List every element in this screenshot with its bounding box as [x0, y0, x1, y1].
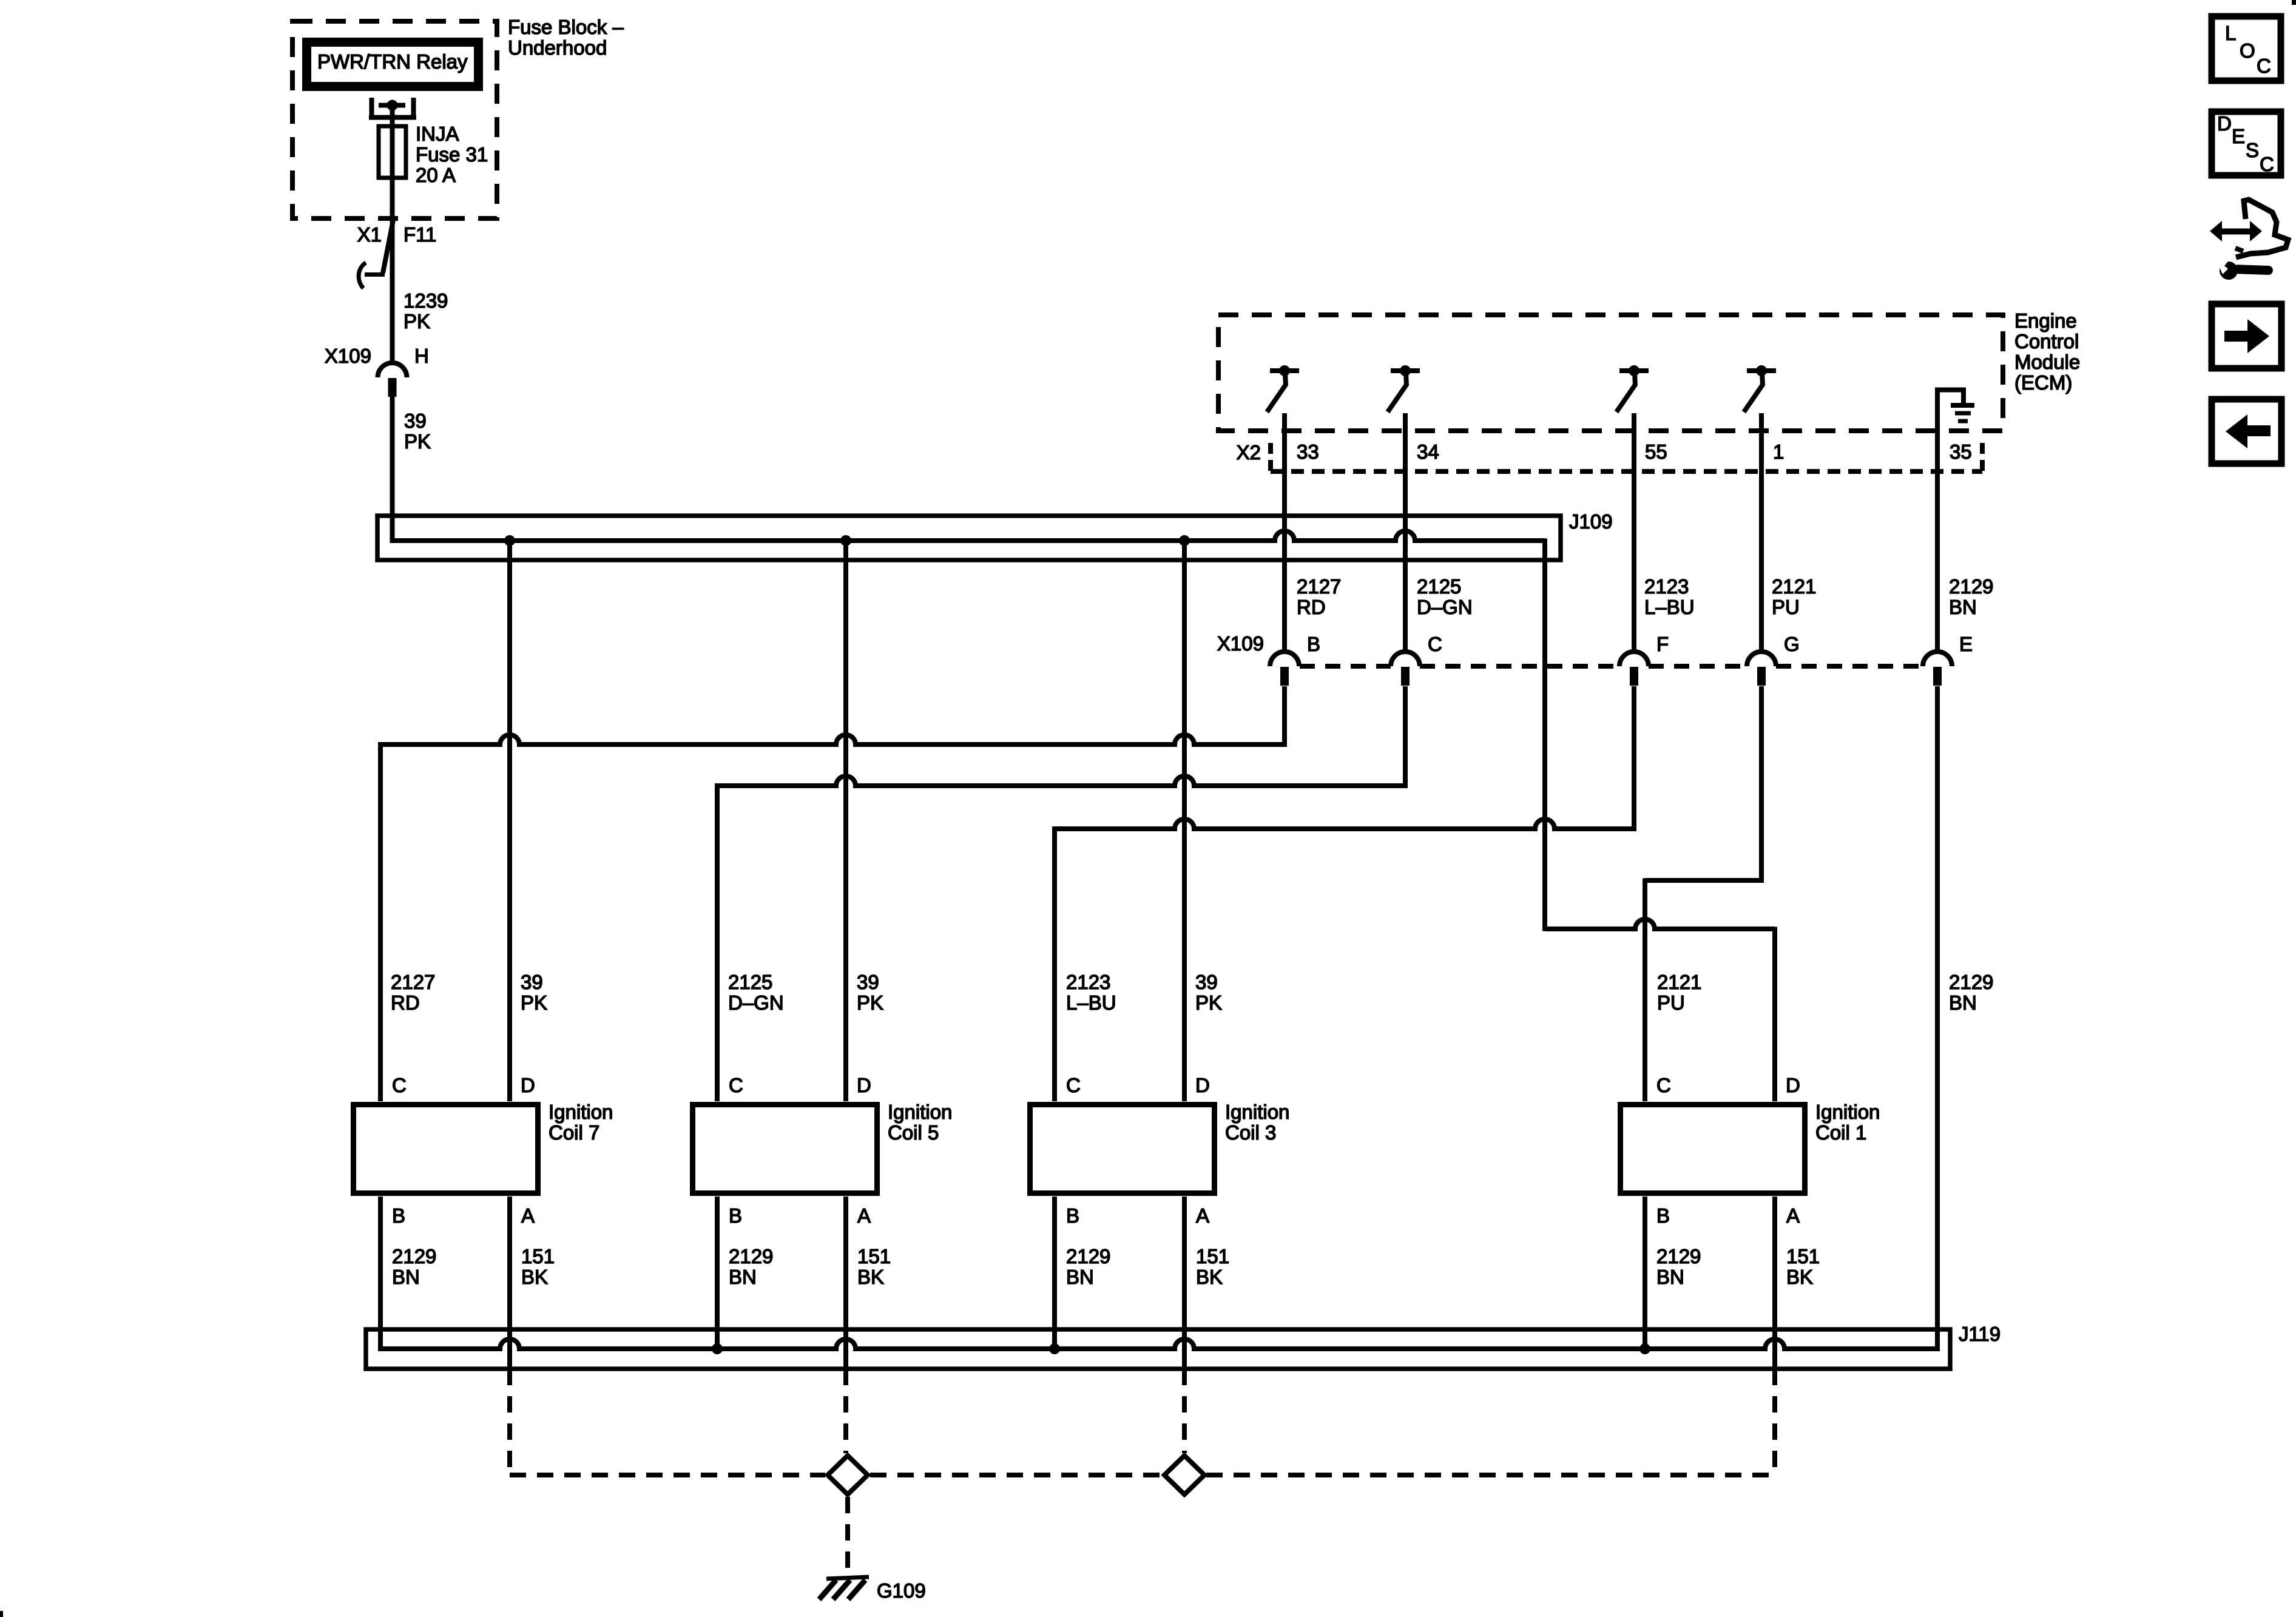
svg-text:C: C — [2260, 153, 2274, 175]
wire 151 BK dashed coil 1 drop — [1772, 1369, 1777, 1473]
connector X2 row dotted line — [1271, 469, 1982, 474]
ignition coil 3 box — [1030, 1105, 1215, 1193]
node J109 bus junction at coil 7 feed — [504, 535, 515, 546]
svg-text:PK: PK — [857, 991, 883, 1014]
wire coil 1 pin A 151 BK through J119 — [1772, 1197, 1777, 1369]
ECM driver switch pin 34 — [1391, 368, 1420, 373]
wire ECM pin 1 to X109 G — [1759, 413, 1764, 652]
svg-text:BN: BN — [1656, 1266, 1684, 1288]
svg-text:E: E — [2232, 125, 2245, 147]
svg-text:B: B — [392, 1204, 405, 1227]
node J119 bus junction coil 5 B — [712, 1343, 723, 1354]
connector X2 left bracket — [1268, 443, 1273, 454]
node fuse feed junction dot — [387, 100, 398, 111]
node J109 bus junction at coil 5 feed — [840, 535, 851, 546]
svg-text:2127: 2127 — [391, 971, 435, 993]
wire hop arcs — [1275, 531, 1294, 541]
svg-text:A: A — [1196, 1204, 1209, 1227]
wire 39 PK from H pin to J109 — [390, 396, 395, 543]
svg-text:2129: 2129 — [392, 1245, 436, 1268]
svg-text:BK: BK — [1786, 1266, 1813, 1288]
svg-text:55: 55 — [1645, 441, 1667, 463]
svg-text:C: C — [1656, 1074, 1671, 1096]
wire 2123 L-BU net: X109 F down, left, down to coil 3 pin C — [1055, 686, 1634, 1101]
svg-text:BN: BN — [729, 1266, 757, 1288]
svg-text:D–GN: D–GN — [1417, 596, 1473, 618]
svg-text:S: S — [2246, 139, 2259, 161]
ground G109 symbol — [826, 1577, 869, 1579]
icon arrow-right box — [2212, 304, 2281, 368]
svg-text:Ignition: Ignition — [1815, 1101, 1880, 1123]
svg-text:Underhood: Underhood — [508, 36, 607, 59]
wire 2127 RD net: X109 B down, left, down to coil 7 pin C — [380, 686, 1285, 1101]
svg-text:D: D — [1786, 1074, 1800, 1096]
wire 39 PK J109 right drop vertical — [1542, 539, 1547, 931]
connector X109 G arc — [1747, 652, 1776, 666]
svg-text:INJA: INJA — [416, 123, 459, 145]
page corner mark — [2292, 0, 2296, 5]
svg-text:2125: 2125 — [728, 971, 772, 993]
svg-text:151: 151 — [1196, 1245, 1229, 1268]
connector X109 G pin — [1757, 667, 1766, 686]
svg-text:151: 151 — [857, 1245, 891, 1268]
svg-text:C: C — [1428, 633, 1442, 655]
svg-text:C: C — [729, 1074, 743, 1096]
wire ground bus dashed segment 2 — [870, 1473, 1163, 1477]
wire 2121 PU lower vertical to coil 1 pin C — [1643, 879, 1647, 1102]
wire coil 5 pin A 151 BK through J119 — [843, 1197, 848, 1369]
svg-text:C: C — [2257, 55, 2271, 77]
svg-text:X1: X1 — [357, 223, 382, 246]
wire 39 PK J109 to coil 7 pin D — [507, 541, 512, 1101]
splice J119 internal bus wire — [380, 1346, 1937, 1351]
svg-text:J119: J119 — [1959, 1323, 2001, 1345]
icon arrow-left — [2246, 425, 2271, 436]
svg-text:B: B — [729, 1204, 742, 1227]
wire dashed drop to G109 — [845, 1497, 850, 1575]
svg-text:BN: BN — [1066, 1266, 1094, 1288]
svg-text:O: O — [2240, 39, 2255, 62]
wire ECM pin 34 to X109 C — [1403, 413, 1408, 652]
svg-text:Coil 5: Coil 5 — [888, 1121, 939, 1144]
connector X109 F arc — [1619, 652, 1649, 666]
wire hop masks — [1277, 538, 1292, 544]
wire coil 3 pin A 151 BK through J119 — [1182, 1197, 1187, 1369]
connector X109 C pin — [1401, 667, 1410, 686]
svg-text:G109: G109 — [877, 1579, 926, 1602]
ECM driver switch pin 1 — [1747, 368, 1776, 373]
svg-text:BN: BN — [1949, 991, 1977, 1014]
wire 2125 D-GN net: X109 C down, left, down to coil 5 pin C — [717, 686, 1405, 1101]
svg-text:A: A — [521, 1204, 535, 1227]
svg-text:PU: PU — [1657, 991, 1685, 1014]
svg-text:A: A — [857, 1204, 871, 1227]
wire ECM pin 55 to X109 F — [1632, 413, 1636, 652]
svg-text:RD: RD — [391, 991, 420, 1014]
svg-text:G: G — [1784, 633, 1800, 655]
connector X109 row dashed line — [1300, 664, 1391, 669]
ignition coil 5 box — [693, 1105, 877, 1193]
fuse block dashed box (Fuse Block - Underhood) — [292, 21, 497, 218]
wire coil 5 pin B to J119 bus (2129 BN) — [715, 1197, 720, 1349]
svg-text:L–BU: L–BU — [1066, 991, 1116, 1014]
wire 151 BK dashed coil 7 drop — [507, 1369, 512, 1473]
svg-text:Engine: Engine — [2014, 309, 2077, 332]
wire 2121 PU net upper: X109 G down and left — [1645, 686, 1761, 880]
svg-text:B: B — [1066, 1204, 1079, 1227]
splice pack J109 outline — [377, 516, 1561, 560]
svg-text:B: B — [1656, 1204, 1670, 1227]
svg-text:X109: X109 — [1217, 632, 1264, 655]
connector X109 H arc — [378, 363, 407, 377]
svg-text:35: 35 — [1950, 441, 1972, 463]
icon DESC box — [2212, 112, 2281, 175]
svg-text:C: C — [392, 1074, 407, 1096]
wire 39 PK to coil 1 pin D vertical — [1772, 927, 1777, 1102]
svg-text:2129: 2129 — [1066, 1245, 1110, 1268]
ignition coil 1 box — [1621, 1105, 1805, 1193]
connector X109 B arc — [1270, 652, 1299, 666]
svg-text:PWR/TRN Relay: PWR/TRN Relay — [317, 50, 468, 73]
svg-text:PK: PK — [521, 991, 547, 1014]
icon wrench — [2220, 262, 2238, 280]
fuse holder clip terminal — [370, 98, 374, 120]
svg-text:D–GN: D–GN — [728, 991, 784, 1014]
svg-text:2123: 2123 — [1066, 971, 1110, 993]
svg-text:39: 39 — [521, 971, 543, 993]
svg-text:BK: BK — [1196, 1266, 1223, 1288]
svg-text:L–BU: L–BU — [1644, 596, 1695, 618]
splice J109 right drop horizontal (39 PK to coil 1) — [1545, 927, 1775, 931]
wire coil 1 pin B to J119 bus (2129 BN) — [1643, 1197, 1647, 1349]
svg-text:BN: BN — [392, 1266, 420, 1288]
splice diamond right — [1164, 1456, 1204, 1494]
ignition coil 7 box — [354, 1105, 538, 1193]
svg-text:L: L — [2225, 22, 2236, 44]
svg-text:Ignition: Ignition — [1225, 1101, 1289, 1123]
wire ground bus dashed segment 1 — [510, 1473, 825, 1477]
wire 1239 PK / 39 PK main vertical from fuse holder to X109 H — [390, 105, 395, 363]
connector marker X1 F11 slash and hook — [383, 220, 393, 273]
svg-text:2129: 2129 — [1949, 971, 1993, 993]
svg-text:Control: Control — [2014, 330, 2079, 353]
svg-text:D: D — [2217, 112, 2232, 135]
svg-text:Ignition: Ignition — [888, 1101, 952, 1123]
icon hand outline — [2236, 200, 2288, 257]
svg-text:2129: 2129 — [1656, 1245, 1701, 1268]
icon hand double arrow — [2210, 221, 2222, 241]
svg-text:F11: F11 — [403, 223, 436, 246]
svg-text:39: 39 — [857, 971, 879, 993]
svg-text:X109: X109 — [325, 345, 371, 367]
svg-text:20 A: 20 A — [416, 164, 456, 186]
fuse INJA Fuse 31 20 A — [379, 126, 406, 178]
wire coil 7 pin A 151 BK through J119 — [507, 1197, 512, 1369]
connector X109 B pin — [1280, 667, 1289, 686]
svg-text:1: 1 — [1773, 441, 1784, 463]
svg-text:2129: 2129 — [1949, 575, 1993, 598]
wire 151 BK dashed coil 5 drop — [843, 1369, 848, 1453]
svg-text:1239: 1239 — [403, 289, 448, 312]
svg-text:RD: RD — [1297, 596, 1326, 618]
ECM driver switch pin 55 — [1619, 368, 1649, 373]
svg-text:Fuse Block –: Fuse Block – — [508, 16, 624, 38]
svg-text:BK: BK — [521, 1266, 548, 1288]
connector X2 right bracket — [1980, 443, 1985, 454]
splice diamond at G109 drop — [828, 1456, 868, 1494]
svg-text:X2: X2 — [1237, 441, 1261, 464]
svg-text:151: 151 — [1786, 1245, 1820, 1268]
wire coil 7 pin B to J119 bus (2129 BN) — [378, 1197, 383, 1351]
icon arrow-left box — [2212, 399, 2281, 464]
svg-text:2125: 2125 — [1417, 575, 1461, 598]
ECM internal ground symbol (pin 35) — [1937, 390, 1963, 403]
svg-text:2127: 2127 — [1297, 575, 1341, 598]
wire ECM pin 35 ground lead — [1935, 388, 1940, 652]
svg-text:Coil 1: Coil 1 — [1815, 1121, 1866, 1144]
svg-text:B: B — [1307, 633, 1320, 655]
icon LOC box — [2212, 16, 2281, 81]
svg-text:Fuse 31: Fuse 31 — [416, 143, 488, 166]
svg-text:PK: PK — [404, 430, 431, 453]
wire ECM pin 33 to X109 B — [1282, 413, 1287, 652]
svg-text:Module: Module — [2014, 351, 2080, 373]
svg-text:D: D — [521, 1074, 535, 1096]
wire coil 3 pin B to J119 bus (2129 BN) — [1052, 1197, 1057, 1349]
node J119 bus junction coil 3 B — [1049, 1343, 1060, 1354]
svg-text:BK: BK — [857, 1266, 884, 1288]
connector X109 C arc — [1391, 652, 1420, 666]
svg-text:F: F — [1656, 633, 1669, 655]
ECM driver switch pin 33 — [1270, 368, 1299, 373]
wire 2129 BN net: X109 E down to J119 bus — [1935, 686, 1940, 1351]
svg-text:D: D — [1195, 1074, 1210, 1096]
node J109 bus junction at coil 3 feed — [1179, 535, 1190, 546]
splice J109 internal bus wire — [393, 538, 1545, 543]
wire 39 PK J109 to coil 5 pin D — [843, 541, 848, 1101]
connector X109 F pin — [1630, 667, 1638, 686]
svg-text:PU: PU — [1772, 596, 1800, 618]
svg-text:2121: 2121 — [1772, 575, 1816, 598]
wire 151 BK dashed coil 3 drop — [1182, 1369, 1187, 1453]
svg-text:Ignition: Ignition — [549, 1101, 613, 1123]
svg-text:2123: 2123 — [1644, 575, 1689, 598]
svg-text:39: 39 — [1195, 971, 1218, 993]
svg-text:39: 39 — [404, 410, 427, 432]
svg-text:H: H — [414, 345, 429, 367]
svg-text:34: 34 — [1417, 441, 1439, 463]
connector X109 E arc — [1923, 652, 1952, 666]
svg-text:Coil 7: Coil 7 — [549, 1121, 599, 1144]
connector X109 H pin — [388, 378, 397, 397]
svg-text:(ECM): (ECM) — [2014, 371, 2072, 394]
splice pack J119 outline — [366, 1329, 1950, 1369]
node J119 bus junction coil 1 B — [1639, 1343, 1650, 1354]
svg-text:33: 33 — [1297, 441, 1319, 463]
svg-text:2129: 2129 — [729, 1245, 773, 1268]
svg-text:151: 151 — [521, 1245, 555, 1268]
svg-text:C: C — [1066, 1074, 1081, 1096]
svg-text:BN: BN — [1949, 596, 1977, 618]
svg-text:PK: PK — [1195, 991, 1222, 1014]
svg-text:2121: 2121 — [1657, 971, 1701, 993]
svg-text:Coil 3: Coil 3 — [1225, 1121, 1276, 1144]
svg-text:PK: PK — [403, 310, 430, 333]
svg-text:A: A — [1786, 1204, 1800, 1227]
ECM dashed box (Engine Control Module) — [1218, 315, 2003, 431]
svg-text:D: D — [857, 1074, 871, 1096]
svg-text:E: E — [1959, 633, 1973, 655]
wire 39 PK J109 to coil 3 pin D — [1182, 541, 1187, 1101]
icon arrow-right — [2224, 331, 2249, 342]
svg-text:J109: J109 — [1569, 510, 1613, 533]
wire ground bus dashed segment 3 — [1206, 1473, 1775, 1477]
connector X109 E pin — [1933, 667, 1942, 686]
relay PWR/TRN Relay box — [307, 42, 479, 87]
